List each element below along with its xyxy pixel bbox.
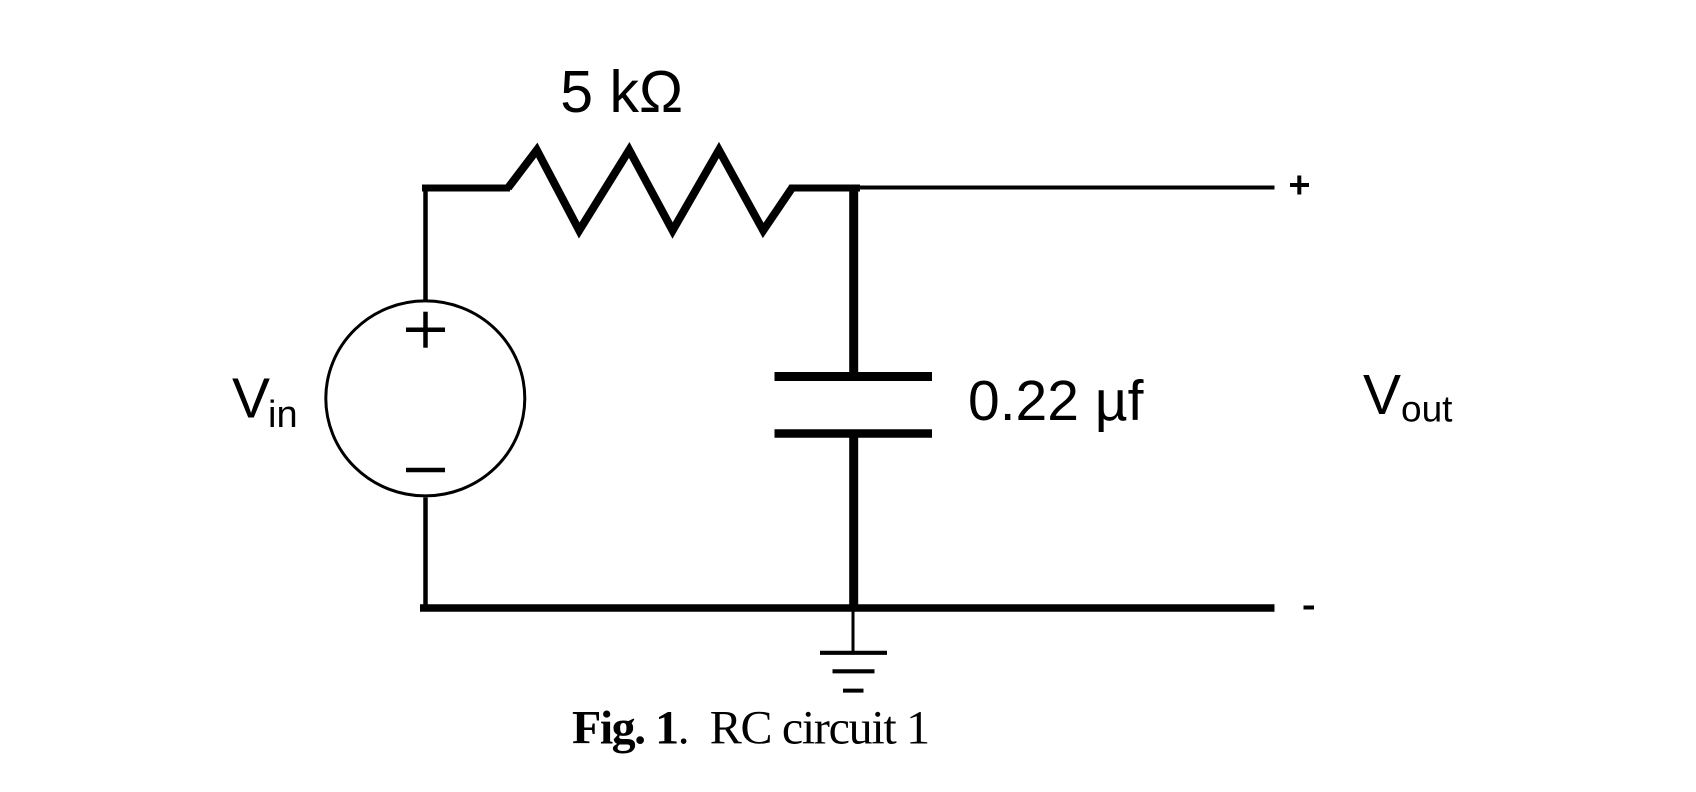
capacitor C1 bottom plate [775,429,933,438]
voltage source U1 circle [326,301,525,496]
ground symbol [820,611,887,691]
polarity − inside source [406,468,445,473]
- output terminal mark [1304,606,1315,610]
wire: resistor to capacitor node [790,185,860,192]
polarity + inside source [406,312,445,348]
wire: Vin top terminal to resistor [422,188,510,301]
svg-text:Fig. 1. RC circuit 1: Fig. 1. RC circuit 1 [572,702,929,755]
bottom ground rail wire [420,604,1275,612]
wire: capacitor bottom lead [849,433,858,608]
wire: node to + output terminal [857,186,1275,190]
+ output terminal mark [1290,176,1309,195]
svg-text:0.22 µf: 0.22 µf [968,369,1144,433]
node: top junction vertical wire to capacitor [849,185,858,377]
resistor R1 (5 kΩ) zigzag [508,150,793,231]
svg-text:5 kΩ: 5 kΩ [560,59,683,125]
wire: Vin bottom terminal to ground rail [423,498,428,609]
capacitor C1 top plate [775,372,933,381]
